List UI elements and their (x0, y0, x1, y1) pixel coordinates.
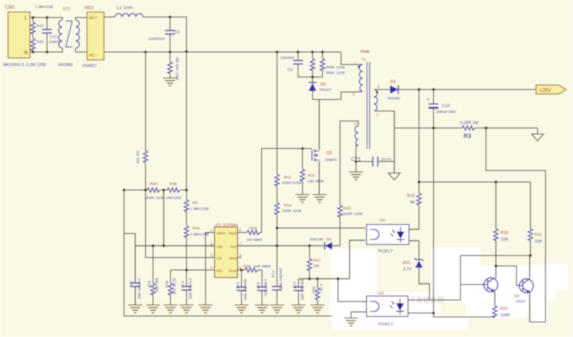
polarity dot secondary (376, 91, 378, 93)
transistor Q3 (519, 279, 533, 293)
wire C16 column (434, 90, 496, 318)
svg-text:R22: R22 (313, 258, 321, 263)
inductor L1 (115, 14, 143, 18)
wire CC sense loop (486, 128, 546, 322)
svg-text:100/400: 100/400 (280, 55, 295, 60)
svg-text:22K: 22K (501, 237, 509, 242)
capacitor C16 electrolytic (429, 103, 439, 105)
svg-text:4: 4 (354, 122, 356, 126)
svg-text:D2: D2 (391, 79, 397, 84)
resistor R6 (143, 150, 147, 163)
ground C15 (255, 305, 269, 313)
capacitor CX1 (42, 30, 52, 34)
svg-text:9014: 9014 (516, 299, 526, 304)
ground C13 (235, 305, 249, 313)
transformer aux winding (355, 126, 358, 146)
wire R21 column (529, 182, 531, 256)
svg-text:R9: R9 (193, 200, 199, 205)
wire startup divider column (276, 52, 278, 305)
svg-text:T1: T1 (362, 57, 368, 62)
capacitor CY1 (373, 157, 378, 167)
wire CS filter R28 C15 C13 (238, 270, 263, 305)
svg-text:RM8: RM8 (361, 49, 371, 54)
svg-text:GND: GND (217, 231, 226, 236)
wire aux return / CY1 (356, 146, 394, 173)
svg-text:MKDSN1.5: MKDSN1.5 (3, 62, 25, 67)
resistor R31 (31, 21, 35, 34)
svg-text:5: 5 (239, 266, 241, 270)
resistor R24 (315, 287, 319, 300)
svg-text:IC1 SOP8A4: IC1 SOP8A4 (216, 222, 239, 227)
svg-text:300K 1206: 300K 1206 (326, 70, 346, 75)
wire secondary gnd drop (393, 128, 395, 173)
resistor R10 (184, 225, 188, 238)
svg-text:100/50V 0R5: 100/50V 0R5 (300, 279, 304, 300)
svg-text:4.7K: 4.7K (319, 284, 323, 292)
svg-text:24K 0805: 24K 0805 (254, 264, 272, 269)
wire AC- rail (104, 51, 341, 53)
diode D2 output (390, 85, 398, 93)
svg-text:VM: VM (217, 244, 223, 249)
IC1 controller (215, 227, 238, 278)
ground C11 (128, 305, 142, 313)
ground triangle output (532, 134, 544, 141)
wire gnd loop bottom (124, 190, 332, 316)
resistor R13 (275, 202, 279, 215)
transformer T1 core (367, 62, 370, 149)
wire IC pin stubs (210, 246, 242, 258)
svg-text:10K 0805: 10K 0805 (307, 179, 325, 184)
white patch region lower-right (330, 247, 568, 330)
wire Vcc row (238, 245, 341, 247)
svg-text:AC+: AC+ (89, 15, 98, 20)
svg-text:684/50V 0R5: 684/50V 0R5 (243, 279, 247, 300)
resistor 300K a (310, 58, 314, 71)
svg-text:1N4148: 1N4148 (309, 236, 324, 241)
svg-text:Dout: Dout (228, 231, 237, 236)
wire input bottom N (30, 48, 87, 52)
capacitor C21 (294, 287, 304, 291)
svg-text:U2: U2 (378, 291, 384, 296)
net label +28V (536, 85, 566, 94)
svg-text:1.5M1206: 1.5M1206 (35, 4, 54, 9)
capacitor C1 (165, 31, 175, 35)
svg-text:2: 2 (353, 93, 355, 97)
svg-text:22K: 22K (535, 239, 543, 244)
ground R18 (146, 305, 160, 313)
polarity dot primary (358, 66, 360, 68)
mosfet Q1 (312, 149, 319, 162)
transistor Q2 (484, 278, 498, 292)
ground R11 (296, 195, 310, 203)
wire rail to primary pin1 (341, 52, 358, 65)
svg-text:AC -: AC - (89, 53, 98, 58)
svg-text:CN1: CN1 (5, 5, 15, 11)
wire drain node (313, 92, 358, 150)
resistor R3 (461, 126, 475, 130)
svg-text:Q3: Q3 (514, 293, 520, 298)
wire C1 column (169, 17, 171, 78)
svg-text:1.5M/1206: 1.5M/1206 (190, 206, 210, 211)
wire U2 right bottom (408, 312, 434, 314)
svg-text:+28V: +28V (539, 88, 552, 94)
wire snubber (298, 52, 323, 100)
svg-text:4.7V: 4.7V (403, 267, 412, 272)
ground C12 (180, 305, 194, 313)
svg-text:82.5K 10K: 82.5K 10K (172, 278, 176, 295)
svg-text:51K 0R5: 51K 0R5 (155, 278, 159, 292)
resistor R20 (493, 305, 497, 318)
svg-text:R21: R21 (534, 232, 542, 237)
svg-text:0.25R 1W: 0.25R 1W (460, 120, 479, 125)
svg-text:L1 1mH: L1 1mH (117, 5, 133, 10)
svg-text:104/630V: 104/630V (148, 36, 165, 41)
ground triangle secondary (388, 173, 400, 180)
svg-text:6: 6 (240, 254, 242, 258)
svg-text:2: 2 (377, 113, 379, 117)
resistor R21 (528, 228, 532, 241)
svg-text:473/50V 0R5: 473/50V 0R5 (137, 278, 141, 299)
resistor R11 (300, 168, 304, 181)
connector CN1 (8, 12, 30, 58)
svg-text:D6: D6 (326, 236, 332, 241)
optocoupler U2 PC817 (367, 296, 409, 317)
svg-text:+: + (427, 97, 430, 103)
svg-text:2M: 2M (314, 263, 320, 268)
wire IC gnd pin (206, 233, 215, 306)
diode D3 FR107 (309, 83, 317, 91)
svg-text:R32: R32 (37, 39, 45, 44)
resistor R19 (168, 282, 172, 295)
wire Vcc cap row (299, 246, 367, 305)
svg-text:FR107: FR107 (320, 87, 333, 92)
svg-text:ES340: ES340 (388, 96, 401, 101)
resistor R29 (246, 230, 260, 234)
ground C21 (292, 305, 306, 313)
resistor R12 (275, 173, 279, 186)
svg-text:1.8NF/50V: 1.8NF/50V (264, 279, 268, 297)
svg-text:R18: R18 (147, 281, 151, 288)
svg-text:R15: R15 (407, 193, 415, 198)
wire U2 left bottom to gnd (351, 312, 367, 318)
wire aux winding chain (277, 121, 365, 279)
wire Q3 collector (529, 256, 531, 279)
svg-text:PC817: PC817 (379, 322, 394, 328)
svg-text:3: 3 (211, 254, 213, 258)
svg-text:CY1: CY1 (351, 157, 361, 163)
wire secondary output (374, 89, 536, 91)
svg-text:R26: R26 (343, 206, 351, 211)
svg-text:RO: RO (217, 268, 223, 273)
wire Q2 emitter / R20 (494, 292, 496, 305)
diode D6 1N4148 (325, 242, 332, 250)
svg-text:530K 1206: 530K 1206 (282, 208, 302, 213)
resistor R44 (146, 188, 160, 192)
svg-text:5K: 5K (410, 200, 415, 205)
ground IC1 GND pin (199, 305, 213, 313)
svg-text:U1: U1 (380, 218, 386, 223)
svg-text:4: 4 (211, 266, 213, 270)
svg-text:2N60C: 2N60C (325, 157, 338, 162)
svg-text:R28: R28 (244, 264, 252, 269)
svg-text:7: 7 (239, 242, 241, 246)
resistor R18 (151, 282, 155, 295)
svg-text:R10: R10 (193, 226, 201, 231)
ground C1/R5 (163, 78, 177, 86)
svg-text:8: 8 (239, 229, 241, 233)
capacitor C15 (257, 287, 267, 291)
capacitor C12 (182, 287, 192, 291)
svg-text:C21: C21 (292, 282, 296, 289)
resistor R15 (417, 192, 421, 205)
wire secondary bottom rail (374, 111, 537, 134)
wire fet source (318, 161, 320, 195)
svg-text:Vout: Vout (229, 268, 238, 273)
svg-text:PC817: PC817 (378, 249, 393, 255)
ground R19 (164, 305, 178, 313)
svg-text:900K 1206: 900K 1206 (145, 195, 165, 200)
svg-text:R31: R31 (37, 23, 45, 28)
svg-text:C13: C13 (235, 282, 239, 289)
zener ZD1 (415, 260, 422, 268)
wire R16 column / Q2 collector (496, 182, 519, 286)
svg-text:C12: C12 (180, 281, 184, 288)
svg-text:R24: R24 (311, 287, 315, 294)
wire ZD1 branch (409, 241, 430, 300)
svg-text:R13: R13 (284, 203, 292, 208)
svg-text:Q1: Q1 (327, 150, 333, 155)
wire AC- drop to CS (146, 52, 215, 258)
svg-text:R12: R12 (284, 175, 292, 180)
wire divider column R9 R10 C12 (186, 52, 188, 306)
svg-text:C1: C1 (175, 29, 181, 34)
ground aux/CY1 earth (349, 172, 363, 180)
svg-text:R46: R46 (170, 181, 178, 186)
svg-text:3W 30K 1206: 3W 30K 1206 (175, 57, 179, 80)
optocoupler U1 PC817 (367, 225, 410, 245)
svg-text:BD1: BD1 (85, 5, 94, 10)
svg-text:C11: C11 (129, 281, 133, 287)
svg-text:0R 0805: 0R 0805 (247, 237, 263, 242)
wire top bus after bridge (104, 17, 187, 52)
svg-text:R44: R44 (150, 181, 158, 186)
wire R11 to gnd (302, 149, 304, 195)
svg-text:D3: D3 (321, 82, 327, 87)
wire U2 led to Q2 base net (408, 256, 530, 301)
svg-text:N: N (24, 51, 28, 57)
capacitor C2 (293, 61, 303, 65)
bridge rectifier BD1 (87, 12, 104, 60)
svg-text:CS: CS (217, 256, 223, 261)
resistor R22 (307, 258, 311, 271)
svg-text:R20: R20 (500, 306, 508, 311)
resistor R16 (494, 228, 498, 241)
svg-text:R29: R29 (250, 226, 258, 231)
ground U2 led (344, 318, 358, 326)
ground R24 (311, 305, 325, 313)
svg-text:474/50V 0R5: 474/50V 0R5 (188, 278, 192, 299)
svg-text:Vcc: Vcc (230, 244, 237, 249)
svg-text:104/50V 0R5: 104/50V 0R5 (279, 268, 283, 289)
svg-text:3: 3 (378, 85, 380, 89)
wire VM row / C11 / R18 (135, 190, 214, 305)
svg-text:VDd: VDd (229, 256, 237, 261)
svg-text:R11: R11 (308, 173, 316, 178)
svg-text:1M/1206: 1M/1206 (166, 195, 182, 200)
svg-text:104/X2: 104/X2 (49, 39, 62, 44)
svg-text:ZD1: ZD1 (403, 260, 412, 265)
transformer secondary winding (374, 90, 378, 112)
resistor R46 (166, 188, 180, 192)
svg-text:L: L (25, 16, 28, 22)
ground C14 (270, 305, 284, 313)
svg-text:C2: C2 (288, 67, 294, 72)
svg-text:1N4007: 1N4007 (82, 63, 97, 68)
svg-text:300K 1206: 300K 1206 (326, 65, 346, 70)
resistor R5 (168, 61, 172, 74)
svg-text:150R: 150R (500, 313, 510, 318)
wire RO row / R19 / C12 (171, 270, 215, 305)
capacitor C11 (130, 283, 140, 287)
wire sense column R15 (409, 90, 530, 230)
svg-text:500R 1206: 500R 1206 (343, 211, 363, 216)
svg-text:R6 75K: R6 75K (136, 151, 140, 164)
svg-text:C16: C16 (442, 103, 450, 108)
resistor R9 (184, 199, 188, 212)
svg-text:C15: C15 (256, 282, 260, 289)
svg-text:1: 1 (211, 229, 213, 233)
capacitor C13 (237, 287, 247, 291)
capacitor C14 (272, 287, 282, 291)
svg-text:2: 2 (211, 242, 213, 246)
common mode choke LF1 (59, 20, 80, 48)
svg-text:HX2961: HX2961 (58, 62, 74, 67)
svg-text:LF1: LF1 (63, 6, 71, 11)
resistor R32 (31, 38, 35, 51)
svg-text:R16: R16 (501, 230, 509, 235)
ground Q1 source (313, 195, 327, 203)
svg-text:C14: C14 (271, 271, 275, 278)
svg-text:R19: R19 (164, 281, 168, 288)
transformer primary winding (358, 65, 363, 92)
svg-text:R3: R3 (464, 134, 472, 140)
svg-text:2.2M 1206: 2.2M 1206 (26, 62, 46, 67)
wire gate drive (238, 149, 313, 233)
wire input top L (30, 18, 87, 21)
svg-text:1.2M/1206: 1.2M/1206 (190, 232, 210, 237)
svg-text:390uF/35V: 390uF/35V (437, 109, 457, 114)
svg-text:1: 1 (355, 62, 357, 66)
svg-text:222Y2: 222Y2 (381, 158, 392, 162)
wire startup resistor row (123, 189, 187, 191)
resistor R26 (338, 204, 342, 217)
svg-text:530K/1206: 530K/1206 (282, 180, 302, 185)
resistor 300K b (320, 58, 324, 71)
resistor R28 (244, 268, 258, 272)
